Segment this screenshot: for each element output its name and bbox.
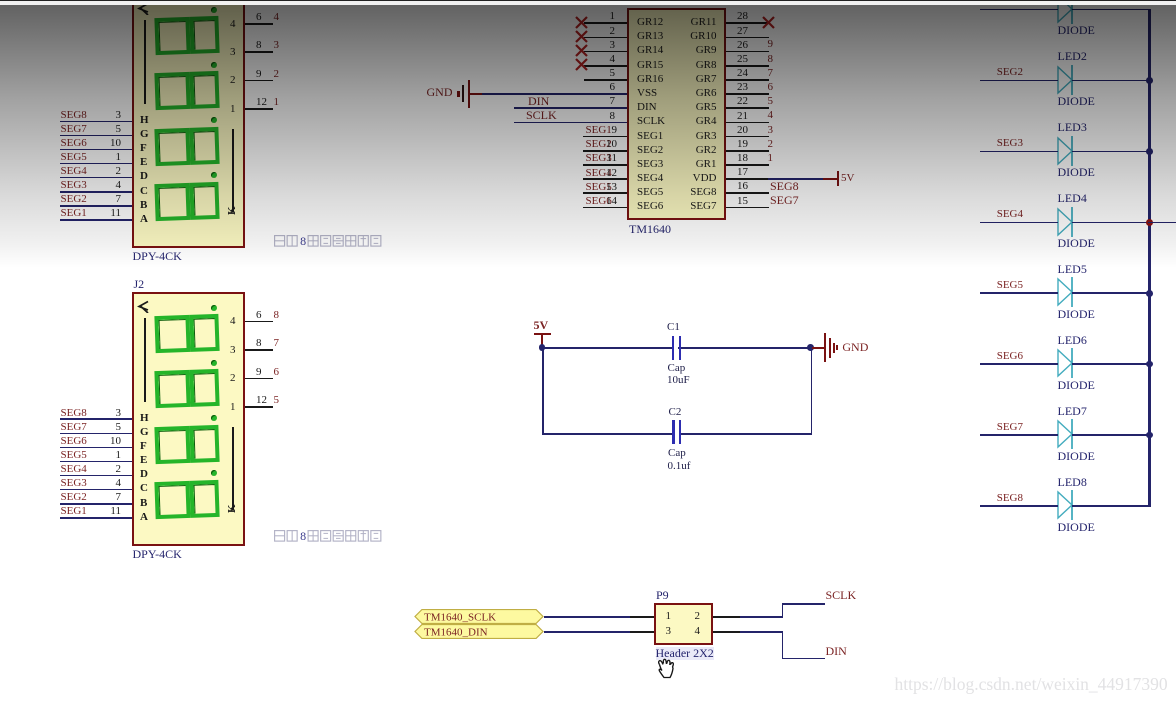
- wire SEG1 to LED1: [980, 9, 1058, 11]
- annotation text: 4-digit 8-seg common cathode display (top): [274, 234, 386, 248]
- DS1 decimal point dp2: [211, 62, 217, 68]
- U1 pin name SEG5: [637, 186, 663, 198]
- U1 pin 27 wire stub: [726, 37, 769, 39]
- net label SEG7: [770, 194, 799, 207]
- net label SEG5: [61, 151, 87, 163]
- J2 pin number 12: [256, 394, 267, 406]
- LED3 designator: [1058, 121, 1087, 134]
- U1 pin name VSS: [637, 87, 657, 99]
- U1 pin number 9: [537, 124, 617, 136]
- wire LED4 to bus: [1072, 222, 1151, 224]
- U1 pin name GR2: [637, 144, 717, 156]
- U1 pin 1 wire stub: [584, 22, 627, 24]
- U1 pin 25 wire stub: [726, 65, 769, 67]
- net label SEG4: [61, 463, 87, 475]
- U1 pin number 19: [737, 138, 748, 150]
- wire LED2 to bus: [1072, 80, 1151, 82]
- U1 pin 16 wire stub: [726, 192, 769, 194]
- J2 designator J2: [134, 278, 145, 291]
- U1 pin 10 wire stub: [583, 150, 627, 152]
- svg-text:8: 8: [300, 529, 306, 543]
- DS1 pin number 11: [41, 207, 121, 219]
- J2 decimal point dp1: [211, 305, 217, 311]
- no-connect X mark pin 2: [575, 30, 588, 43]
- DS1 pin number 7: [41, 193, 121, 205]
- DS1 pin name C: [140, 185, 148, 197]
- wire left vertical 5V rail: [542, 347, 544, 433]
- U1 pin number 23: [737, 81, 748, 93]
- U1 pin number 5: [535, 67, 615, 79]
- wire TM1640_DIN to P9 pin 3: [544, 631, 633, 633]
- J2 pin number 9: [256, 366, 262, 378]
- DS1 decimal point dp1: [211, 7, 217, 13]
- DS1 pin number 8: [256, 39, 262, 51]
- U1 pin 24 wire stub: [726, 79, 769, 81]
- junction node (red) at LED4 row: [1146, 219, 1153, 226]
- U1 pin number 4: [535, 53, 615, 65]
- net label SEG5: [61, 449, 87, 461]
- wire net SEG8 to DS1: [60, 121, 133, 123]
- J2 digit 1: [154, 314, 218, 353]
- LED7 designator: [1058, 405, 1087, 418]
- wire TM1640_SCLK to P9 pin 1: [544, 616, 633, 618]
- junction node at 5V: [539, 344, 546, 351]
- J2 part name DPY-4CK: [133, 548, 182, 561]
- svg-text:TM1640_SCLK: TM1640_SCLK: [424, 611, 496, 623]
- P9 pin 3: [666, 625, 672, 637]
- power symbol 5V (cap circuit): [534, 319, 549, 332]
- J2 decimal point dp4: [211, 470, 217, 476]
- U1 pin 14 wire stub: [583, 207, 627, 209]
- U1 pin 2 wire stub: [584, 37, 627, 39]
- DS1 pin number 1: [41, 151, 121, 163]
- LED6 diode symbol: [1055, 347, 1077, 379]
- C2 type Cap: [668, 447, 686, 459]
- J2 pin name C: [140, 482, 148, 494]
- DS1 digit 1: [154, 16, 218, 55]
- DS1 digit 4: [154, 182, 218, 221]
- J2 colon bar right: [232, 427, 234, 510]
- wire P9 pin 2 to SCLK: [713, 616, 740, 618]
- wire net SEG4 to J2: [60, 475, 133, 477]
- wire SEG2 to LED2: [980, 80, 1058, 82]
- svg-text:8: 8: [300, 234, 306, 248]
- DS1 part name DPY-4CK: [133, 250, 182, 263]
- 7-segment display DS1 body: [132, 0, 245, 248]
- U1 pin 13 wire stub: [583, 192, 627, 194]
- U1 pin number 27: [737, 25, 748, 37]
- U1 pin name SEG7: [637, 200, 717, 212]
- LED6 designator: [1058, 334, 1087, 347]
- U1 pin 23 wire stub: [726, 93, 769, 95]
- IC U1 TM1640 body: [627, 8, 726, 220]
- ground bar: [824, 333, 826, 362]
- J2 pin number 2: [41, 463, 121, 475]
- wire net SEG5 to DS1: [60, 163, 133, 165]
- P9 pin 4: [695, 625, 701, 637]
- net number 5 for GR net: [768, 95, 774, 107]
- J2 pin name G: [140, 426, 149, 438]
- U1 pin number 3: [535, 39, 615, 51]
- U1 pin name GR13: [637, 30, 663, 42]
- DS1 overflow indicator mark: [137, 2, 149, 15]
- DS1 pin number 2: [41, 165, 121, 177]
- wire P9 pin 4 to DIN: [713, 631, 740, 633]
- J2 colon bar left: [144, 318, 146, 402]
- U1 pin number 2: [535, 25, 615, 37]
- capacitor C2: [672, 420, 674, 445]
- net number 8 for GR net: [768, 53, 774, 65]
- U1 pin number 14: [537, 195, 617, 207]
- LED2 diode symbol: [1055, 64, 1077, 96]
- U1 pin number 13: [537, 181, 617, 193]
- J2 digit select pin name 2: [156, 372, 236, 384]
- DS1 digit select wire pin 8: [245, 51, 273, 53]
- DS1 pin name G: [140, 128, 149, 140]
- no-connect X mark pin 4: [575, 58, 588, 71]
- net label SEG1: [61, 505, 87, 517]
- U1 pin name GR15: [637, 59, 663, 71]
- LED7 diode symbol: [1055, 418, 1077, 450]
- J2 pin number 11: [41, 505, 121, 517]
- DS1 decimal point dp3: [211, 117, 217, 123]
- DS1 pin number 6: [256, 11, 262, 23]
- net label 8: [274, 309, 280, 321]
- net label SEG2: [943, 66, 1023, 78]
- net label 7: [274, 337, 280, 349]
- DS1 digit select pin name 1: [156, 103, 236, 115]
- net label SCLK (bottom right): [826, 589, 857, 602]
- wire right vertical GND rail: [811, 347, 813, 433]
- net label SEG7: [61, 421, 87, 433]
- U1 pin name SCLK: [637, 115, 665, 127]
- LED7 part name DIODE: [1058, 450, 1095, 463]
- DS1 digit select wire pin 12: [245, 108, 273, 110]
- DS1 pin name A: [140, 213, 148, 225]
- annotation text: 4-digit 8-seg common cathode display (bottom): [274, 529, 386, 543]
- wire net SEG5 to J2: [60, 461, 133, 463]
- LED8 part name DIODE: [1058, 521, 1095, 534]
- net number 7 for GR net: [768, 67, 774, 79]
- LED8 diode symbol: [1055, 489, 1077, 521]
- J2 digit select wire pin 8: [245, 349, 273, 351]
- junction node at LED7 row: [1146, 432, 1153, 439]
- U1 pin name SEG4: [637, 172, 663, 184]
- net label 4: [274, 11, 280, 23]
- DS1 colon bar right: [232, 129, 234, 212]
- net label DIN (bottom right): [826, 645, 847, 658]
- U1 pin name SEG1: [637, 130, 663, 142]
- P9 part name Header 2X2: [656, 647, 714, 660]
- net label 1: [274, 96, 280, 108]
- wire net SEG1 to J2: [60, 517, 133, 519]
- J2 decimal point dp3: [211, 415, 217, 421]
- U1 pin number 17: [737, 166, 748, 178]
- C2 value 0.1uf: [668, 460, 691, 472]
- J2 pin name F: [140, 440, 147, 452]
- DS1 digit select pin name 4: [156, 18, 236, 30]
- port TM1640_DIN: [414, 624, 544, 639]
- U1 pin name GR8: [637, 59, 717, 71]
- U1 pin number 21: [737, 110, 748, 122]
- no-connect X mark pin 1: [575, 16, 588, 29]
- J2 pin number 7: [41, 491, 121, 503]
- U1 pin 12 wire stub: [583, 178, 627, 180]
- net number 2 for GR net: [768, 138, 774, 150]
- U1 pin 20 wire stub: [726, 136, 769, 138]
- wire LED1 to bus: [1072, 9, 1151, 11]
- net label SEG2: [61, 193, 87, 205]
- no-connect X mark pin 3: [575, 44, 588, 57]
- LED4 diode symbol: [1055, 206, 1077, 238]
- DS1 pin number 10: [41, 137, 121, 149]
- LED5 designator: [1058, 263, 1087, 276]
- wire SEG6 to LED6: [980, 363, 1058, 365]
- net label SEG4: [586, 167, 612, 179]
- U1 pin number 26: [737, 39, 748, 51]
- wire net SEG8 to J2: [60, 418, 133, 420]
- DS1 pin name F: [140, 142, 147, 154]
- J2 pin number 6: [256, 309, 262, 321]
- net label SEG6: [61, 137, 87, 149]
- U1 pin number 22: [737, 95, 748, 107]
- wire SEG8 to LED8: [980, 505, 1058, 507]
- net label 6: [274, 366, 280, 378]
- J2 pin name E: [140, 454, 147, 466]
- J2 pin number 10: [41, 435, 121, 447]
- net label 2: [274, 68, 280, 80]
- U1 pin 26 wire stub: [726, 51, 769, 53]
- junction node at GND: [807, 344, 814, 351]
- net number 3 for GR net: [768, 124, 774, 136]
- U1 pin 5 wire stub: [584, 79, 627, 81]
- J2 pin number 3: [41, 407, 121, 419]
- capacitor C1: [672, 336, 674, 360]
- net label SEG6: [943, 350, 1023, 362]
- junction node at LED5 row: [1146, 290, 1153, 297]
- LED4 part name DIODE: [1058, 237, 1095, 250]
- U1 pin number 11: [537, 152, 617, 164]
- U1 pin name SEG3: [637, 158, 663, 170]
- U1 pin number 15: [737, 195, 748, 207]
- U1 pin 15 wire stub: [726, 207, 769, 209]
- U1 pin name GR6: [637, 87, 717, 99]
- net label SEG2: [586, 138, 612, 150]
- LED1 part name DIODE: [1058, 24, 1095, 37]
- wire top rail 5V to C1: [542, 347, 811, 349]
- wire LED5 to bus: [1072, 292, 1151, 294]
- wire SEG7 to LED7: [980, 434, 1058, 436]
- DS1 pin name H: [140, 114, 149, 126]
- DS1 digit 2: [154, 71, 218, 110]
- J2 overflow indicator mark: [137, 300, 149, 313]
- net label SEG8: [61, 109, 87, 121]
- U1 pin 11 wire stub: [583, 164, 627, 166]
- DS1 digit select pin name 2: [156, 74, 236, 86]
- wire to GND: [811, 347, 825, 349]
- U1 pin name SEG6: [637, 200, 663, 212]
- power symbol 5V (right of U1): [837, 171, 839, 186]
- P9 pin 1: [666, 610, 672, 622]
- LED3 part name DIODE: [1058, 166, 1095, 179]
- DS1 pin name D: [140, 170, 148, 182]
- no-connect X mark pin 28: [762, 16, 775, 29]
- U1 pin name GR4: [637, 115, 717, 127]
- port TM1640_SCLK: [414, 609, 544, 624]
- U1 pin number 24: [737, 67, 748, 79]
- net number 4 for GR net: [768, 109, 774, 121]
- net label SEG3: [586, 152, 612, 164]
- wire net SEG2 to DS1: [60, 205, 133, 207]
- net label SEG8: [943, 492, 1023, 504]
- J2 decimal point dp2: [211, 360, 217, 366]
- net number 9 for GR net: [768, 38, 774, 50]
- wire net SEG3 to J2: [60, 489, 133, 491]
- wire SEG5 to LED5: [980, 292, 1058, 294]
- net label SEG6: [61, 435, 87, 447]
- net label SEG6: [586, 195, 612, 207]
- U1 pin name GR1: [637, 158, 717, 170]
- U1 pin name GR9: [637, 44, 717, 56]
- U1 pin 9 wire stub: [583, 136, 627, 138]
- wire net SEG4 to DS1: [60, 177, 133, 179]
- junction node at LED6 row: [1146, 361, 1153, 368]
- wire net SEG7 to J2: [60, 433, 133, 435]
- wire LED3 to bus: [1072, 151, 1151, 153]
- LED5 part name DIODE: [1058, 308, 1095, 321]
- U1 pin name GR5: [637, 101, 717, 113]
- U1 pin name GR14: [637, 44, 663, 56]
- J2 pin number 1: [41, 449, 121, 461]
- wire SEG4 to LED4: [980, 222, 1058, 224]
- (decorative) gradient overlay: [0, 5, 1176, 268]
- U1 pin 19 wire stub: [726, 150, 769, 152]
- wire LED4 row to right edge: [1148, 222, 1176, 224]
- DS1 decimal point dp4: [211, 172, 217, 178]
- U1 pin number 18: [737, 152, 748, 164]
- LED5 diode symbol: [1055, 276, 1077, 308]
- U1 pin number 7: [535, 95, 615, 107]
- wire net SEG6 to DS1: [60, 149, 133, 151]
- J2 digit select wire pin 6: [245, 321, 273, 323]
- U1 pin name GR3: [637, 130, 717, 142]
- net number 6 for GR net: [768, 81, 774, 93]
- net label SEG4: [61, 165, 87, 177]
- U1 pin name GR10: [637, 30, 717, 42]
- U1 designator TM1640: [629, 223, 671, 236]
- U1 pin number 12: [537, 167, 617, 179]
- J2 digit 4: [154, 480, 218, 519]
- U1 pin name SEG2: [637, 144, 663, 156]
- LED2 designator: [1058, 50, 1087, 63]
- wire GND to U1 VSS pin 6: [470, 93, 482, 95]
- connector P9 body: [654, 603, 713, 645]
- LED1 diode symbol: [1055, 0, 1077, 25]
- U1 pin name DIN: [637, 101, 657, 113]
- DS1 pin name B: [140, 199, 147, 211]
- U1 pin name SEG8: [637, 186, 717, 198]
- J2 pin name H: [140, 412, 149, 424]
- U1 pin name VDD: [637, 172, 717, 184]
- J2 digit select pin name 3: [156, 344, 236, 356]
- DS1 digit select pin name 3: [156, 46, 236, 58]
- U1 pin 3 wire stub: [584, 51, 627, 53]
- DS1 colon bar left: [144, 20, 146, 104]
- net label SCLK: [526, 109, 557, 122]
- LED3 diode symbol: [1055, 135, 1077, 167]
- net label 5: [274, 394, 280, 406]
- watermark text: [895, 675, 1168, 694]
- wire net SEG6 to J2: [60, 447, 133, 449]
- J2 pin name A: [140, 511, 148, 523]
- LED4 designator: [1058, 192, 1087, 205]
- DS1 pin number 12: [256, 96, 267, 108]
- wire LED6 to bus: [1072, 363, 1151, 365]
- J2 digit select wire pin 9: [245, 378, 273, 380]
- LED6 part name DIODE: [1058, 379, 1095, 392]
- P9 pin 2: [695, 610, 701, 622]
- J2 K mark: [226, 499, 240, 513]
- LED8 designator: [1058, 476, 1087, 489]
- net label SEG8: [770, 180, 799, 193]
- U1 pin number 8: [535, 110, 615, 122]
- J2 pin number 8: [256, 337, 262, 349]
- wire SCLK to U1 pin 8: [514, 122, 627, 124]
- net label SEG7: [61, 123, 87, 135]
- DS1 pin number 5: [41, 123, 121, 135]
- C1 value 10uF: [667, 374, 690, 386]
- 7-segment display J2 body: [132, 292, 245, 546]
- J2 digit 3: [154, 424, 218, 463]
- net label SEG3: [61, 477, 87, 489]
- J2 digit select wire pin 12: [245, 406, 273, 408]
- C2 designator: [669, 406, 682, 418]
- junction node at LED2 row: [1146, 77, 1153, 84]
- net label SEG3: [943, 137, 1023, 149]
- ground symbol GND (left): [427, 86, 453, 99]
- wire U1 VDD pin 17 to 5V: [726, 178, 768, 180]
- wire LED7 to bus: [1072, 434, 1151, 436]
- U1 pin 18 wire stub: [726, 164, 769, 166]
- net number 1 for GR net: [768, 152, 774, 164]
- ground bar: [829, 338, 831, 358]
- U1 pin 28 wire stub: [726, 22, 769, 24]
- net label SEG8: [61, 407, 87, 419]
- U1 pin 21 wire stub: [726, 122, 769, 124]
- net label SEG5: [586, 181, 612, 193]
- C1 type Cap: [668, 362, 686, 374]
- J2 pin name B: [140, 497, 147, 509]
- net label SEG5: [943, 279, 1023, 291]
- U1 pin number 20: [737, 124, 748, 136]
- net label SEG7: [943, 421, 1023, 433]
- ground bar: [836, 345, 838, 350]
- J2 digit select pin name 4: [156, 315, 236, 327]
- net label SEG2: [61, 491, 87, 503]
- net label SEG1: [586, 124, 612, 136]
- J2 pin number 5: [41, 421, 121, 433]
- J2 pin number 4: [41, 477, 121, 489]
- U1 pin 22 wire stub: [726, 107, 769, 109]
- wire net SEG1 to DS1: [60, 219, 133, 221]
- U1 pin number 28: [737, 10, 748, 22]
- DS1 pin name E: [140, 156, 147, 168]
- U1 pin number 10: [537, 138, 617, 150]
- U1 pin name GR7: [637, 73, 717, 85]
- wire net SEG2 to J2: [60, 503, 133, 505]
- U1 pin 4 wire stub: [584, 65, 627, 67]
- DS1 digit select wire pin 9: [245, 80, 273, 82]
